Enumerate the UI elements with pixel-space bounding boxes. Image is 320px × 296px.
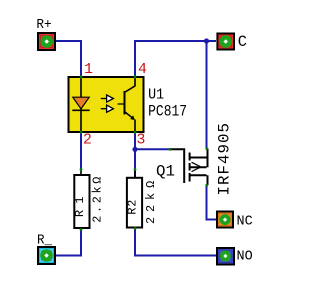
- svg-text:1: 1: [84, 62, 93, 78]
- svg-text:C: C: [238, 33, 247, 51]
- svg-text:Q1: Q1: [156, 162, 175, 180]
- svg-text:U1: U1: [148, 86, 164, 103]
- svg-text:2: 2: [83, 132, 92, 148]
- svg-text:2.2kΩ: 2.2kΩ: [90, 177, 104, 223]
- svg-text:R2: R2: [126, 200, 140, 215]
- svg-text:3: 3: [137, 132, 146, 148]
- svg-text:NC: NC: [237, 214, 253, 229]
- svg-text:NO: NO: [237, 250, 253, 265]
- svg-text:R+: R+: [36, 17, 51, 33]
- svg-text:IRF4905: IRF4905: [216, 123, 234, 196]
- svg-text:PC817: PC817: [148, 103, 187, 121]
- svg-text:4: 4: [138, 62, 147, 78]
- svg-text:R_: R_: [37, 233, 53, 248]
